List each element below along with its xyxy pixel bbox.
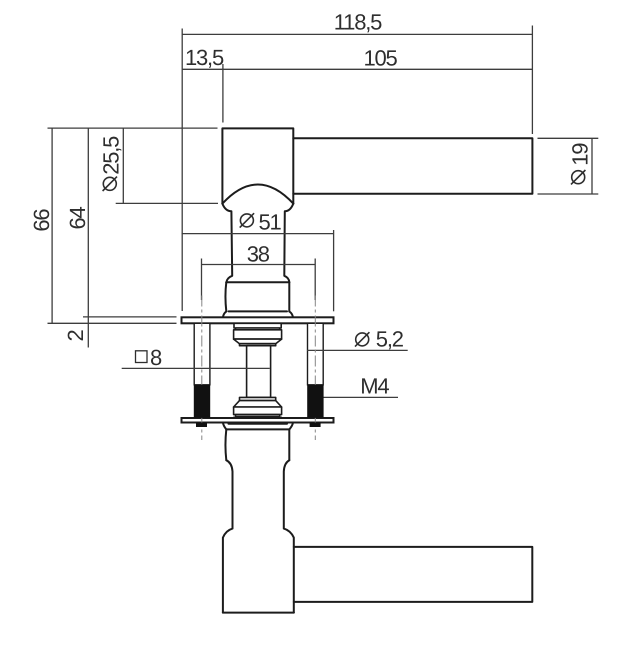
diameter symbol for 19 [572,171,585,184]
dimension line 38 [202,264,316,266]
extension line grip top (66/64/d25,5) [48,127,218,129]
svg-text:105: 105 [363,46,397,71]
extension line grip shoulder (d25,5 bottom) [116,202,218,204]
bottom ferrule top edge [226,428,289,430]
bottom neck and grip right side [284,460,294,612]
ferrule top edge [226,281,289,283]
bottom rose skirt left [223,423,226,430]
right screw tip below plate [310,423,321,428]
bottom rose skirt right [289,423,293,430]
leader line d5,2 [307,349,408,351]
upper nut body [234,330,282,339]
lower collar ring [240,397,276,400]
diameter symbol for 5,2 [356,333,369,346]
extension line lever top (d19) [538,137,599,139]
extension line plate left edge [181,29,183,312]
left screw centerline [201,296,203,441]
left screw tip below plate [196,423,207,428]
bottom skirt inner edge [229,423,288,425]
bottom grip end edge [223,612,294,614]
right screw shaft [308,323,324,385]
upper flange band [234,323,281,328]
extension line plate bottom to left [48,322,177,324]
top neck left side with fillets [222,204,232,283]
ferrule bottom edge [229,310,287,312]
right screw centerline [314,296,316,441]
svg-text:5,2: 5,2 [376,326,404,351]
extension line lever right end [531,26,533,135]
bottom lever bar tube [294,547,533,602]
dimension line 118,5 [182,33,532,35]
ferrule right side [288,282,290,311]
square-section symbol for 8 [136,351,148,363]
bottom ferrule right side [288,429,290,460]
ferrule left side (bowed) [224,282,227,311]
dimension line d51 [182,233,334,235]
leader line square 8 [122,367,270,369]
svg-text:38: 38 [247,242,270,267]
svg-text:51: 51 [259,209,282,234]
bottom neck and grip left side [223,460,233,612]
top lever bar tube [293,138,532,194]
dimension line 66 [51,128,53,323]
top grip shoulder arc [222,185,293,204]
extension line right screw axis (38) [314,259,316,301]
extension line grip left edge [222,64,224,123]
leader line M4 [323,396,398,398]
spindle stack between plates [234,323,282,418]
top neck right side with fillets [284,204,293,283]
lower nut chamfer [234,401,282,407]
square spindle shaft [247,346,271,398]
extension line plate right edge (d51) [333,230,335,311]
upper collar ring [240,344,276,346]
svg-text:8: 8 [150,345,162,370]
lower thin band [236,415,280,417]
lower flange side edges [234,417,281,418]
extension line lever bottom (d19) [538,193,599,195]
extension line plate top to left [83,316,177,318]
extension line left screw axis (38) [201,259,203,301]
upper thin band [236,328,280,330]
dimension line d25,5 [122,128,124,203]
dimension line d19 [591,138,593,194]
svg-text:25,5: 25,5 [99,136,124,175]
bottom rose plate [182,418,334,423]
bottom ferrule left side (bowed) [224,429,227,460]
svg-text:118,5: 118,5 [334,9,382,34]
left screw shaft [194,323,210,385]
diameter symbol for 25,5 [103,177,116,190]
dimension line 13,5 and 105 [182,68,532,70]
svg-text:13,5: 13,5 [185,45,224,70]
svg-text:64: 64 [65,207,90,230]
rose skirt right [289,311,293,317]
diameter symbol for 51 [240,214,253,227]
top grip cylinder [222,128,293,203]
upper nut chamfer [234,339,282,344]
svg-text:66: 66 [29,209,54,232]
dimension line 64 and 2 [87,128,89,347]
lower nut body [234,407,282,415]
svg-text:2: 2 [63,330,88,342]
right screw thread (black) [307,385,323,418]
rose skirt left [223,311,226,317]
svg-text:19: 19 [568,143,593,166]
svg-text:M4: M4 [360,374,389,399]
top rose plate [182,317,334,323]
left screw thread (black) [194,385,210,418]
